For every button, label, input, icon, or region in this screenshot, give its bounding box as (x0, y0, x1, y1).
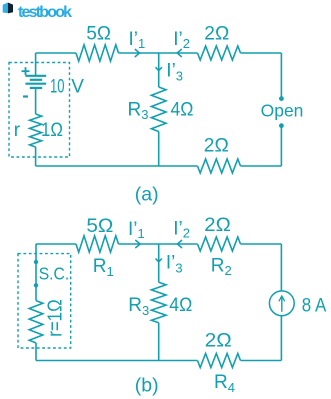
svg-text:(b): (b) (135, 375, 159, 397)
svg-text:r: r (14, 120, 21, 141)
svg-text:I’1: I’1 (128, 219, 145, 241)
svg-text:R3: R3 (128, 295, 149, 318)
resistor R3 4ohm (b) (151, 282, 166, 323)
resistor R2 2ohm (b) (198, 237, 241, 251)
resistor R3 4ohm (a) (151, 87, 166, 132)
svg-text:I’1: I’1 (129, 29, 146, 51)
resistor 2ohm top (a) (198, 46, 241, 60)
svg-text:r=1Ω: r=1Ω (45, 299, 67, 337)
arrow I'3 (b) (156, 259, 162, 262)
svg-text:I’2: I’2 (173, 29, 190, 51)
wire (b) left vertical upper (35, 244, 37, 262)
svg-text:V: V (71, 76, 84, 97)
svg-text:I’2: I’2 (173, 218, 190, 240)
svg-text:2Ω: 2Ω (204, 24, 229, 45)
svg-text:(a): (a) (135, 183, 159, 205)
svg-text:5Ω: 5Ω (86, 216, 113, 237)
arrow I'3 (a) (156, 67, 162, 70)
resistor 5ohm (a) (76, 45, 119, 61)
wire (b) right upper vertical (280, 244, 282, 291)
svg-text:8 A: 8 A (302, 296, 327, 317)
svg-text:10: 10 (50, 76, 65, 97)
wire R3 branch upper (a) (158, 53, 160, 87)
svg-text:2Ω: 2Ω (205, 331, 232, 352)
open terminal bottom node (279, 123, 284, 128)
svg-text:2Ω: 2Ω (204, 215, 231, 236)
short-circuit wire (b) (35, 262, 37, 285)
wire (a) right lower vertical (280, 126, 282, 166)
dashed source box (a) (9, 63, 70, 158)
resistor r 1ohm (a) (30, 114, 42, 147)
wire (a) bottom-left segment (36, 165, 198, 167)
wire (b) top-middle segment (119, 243, 198, 245)
wire battery to resistor r (a) (35, 88, 37, 114)
wire (b) left vertical bottom (35, 343, 37, 361)
wire (b) right lower vertical (280, 316, 282, 361)
wire R3 branch lower (a) (158, 132, 160, 167)
wire (a) left vertical bottom (35, 147, 37, 166)
current source arrow (281, 296, 283, 312)
arrow I'2 (b) (177, 240, 182, 248)
svg-text:R4: R4 (214, 372, 235, 395)
wire (b) to resistor r (35, 285, 37, 300)
current source 8A circle (269, 291, 294, 316)
open terminal top node (279, 96, 284, 101)
testbook logo icon (3, 3, 8, 14)
svg-text:I’3: I’3 (166, 61, 183, 84)
arrow I'1 (b) (135, 240, 140, 248)
wire (a) top-right segment (241, 52, 282, 54)
svg-text:Open: Open (261, 101, 304, 121)
svg-text:R1: R1 (93, 256, 114, 279)
svg-text:4Ω: 4Ω (169, 295, 192, 316)
svg-text:R3: R3 (128, 99, 149, 122)
svg-text:testbook: testbook (18, 4, 72, 21)
wire (b) bottom-right segment (241, 360, 282, 362)
arrow I'2 (a) (177, 49, 182, 57)
wire (b) top-left segment (36, 243, 76, 245)
wire R3 branch lower (b) (158, 323, 160, 361)
S.C. node bottom (34, 283, 38, 287)
wire (a) top-middle segment (119, 52, 198, 54)
svg-text:2Ω: 2Ω (204, 136, 229, 157)
wire (a) top-left segment (36, 52, 76, 54)
resistor r 1ohm (b) (29, 301, 43, 343)
wire (b) top-right segment (241, 243, 282, 245)
wire (a) bottom-right segment (241, 165, 282, 167)
wire (a) right upper vertical (280, 53, 282, 99)
resistor R4 2ohm (b) (198, 354, 241, 368)
svg-text:4Ω: 4Ω (171, 99, 194, 120)
wire R3 branch upper (b) (158, 244, 160, 282)
svg-text:S.C.: S.C. (39, 264, 69, 284)
dashed source box (b) (18, 254, 71, 348)
wire (a) left vertical to battery (35, 53, 37, 76)
arrow I'1 (a) (135, 49, 140, 57)
wire (b) bottom-left segment (36, 360, 198, 362)
battery plus sign (22, 70, 30, 72)
resistor 2ohm bottom (a) (198, 159, 241, 173)
svg-text:1Ω: 1Ω (41, 120, 63, 141)
resistor R1 5ohm (b) (76, 236, 119, 252)
svg-text:R2: R2 (211, 255, 232, 278)
svg-text:5Ω: 5Ω (86, 24, 111, 45)
battery 10V plates (25, 75, 46, 77)
S.C. node top (34, 260, 38, 264)
battery minus sign (23, 95, 28, 97)
svg-text:I’3: I’3 (166, 252, 183, 275)
